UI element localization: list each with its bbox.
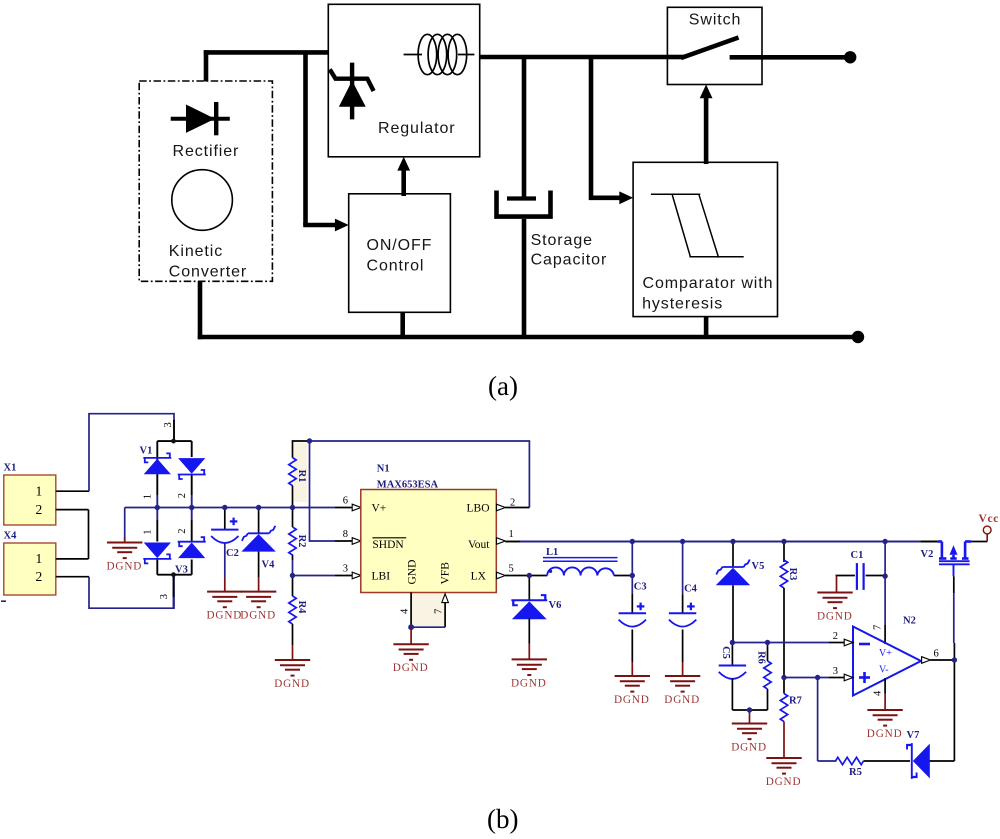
svg-text:V5: V5 xyxy=(752,561,765,572)
svg-text:4: 4 xyxy=(400,608,411,614)
svg-text:1: 1 xyxy=(143,494,154,499)
svg-text:DGND: DGND xyxy=(614,694,650,706)
svg-text:3: 3 xyxy=(343,564,348,575)
svg-text:2: 2 xyxy=(510,498,515,509)
svg-text:1: 1 xyxy=(36,484,43,499)
svg-text:DGND: DGND xyxy=(664,694,700,706)
svg-text:VFB: VFB xyxy=(440,562,452,585)
svg-text:N2: N2 xyxy=(903,616,916,627)
svg-text:6: 6 xyxy=(343,496,348,507)
svg-text:3: 3 xyxy=(833,666,838,677)
svg-text:C3: C3 xyxy=(634,582,647,593)
svg-text:R3: R3 xyxy=(787,568,798,581)
svg-text:1: 1 xyxy=(143,530,154,535)
svg-text:DGND: DGND xyxy=(766,776,802,788)
svg-text:C1: C1 xyxy=(851,550,864,561)
svg-text:R2: R2 xyxy=(296,535,307,548)
svg-text:(b): (b) xyxy=(487,804,518,834)
svg-text:3: 3 xyxy=(163,422,174,427)
svg-text:GND: GND xyxy=(407,560,419,585)
svg-text:3: 3 xyxy=(159,594,170,599)
svg-text:hysteresis: hysteresis xyxy=(642,296,723,313)
svg-text:Switch: Switch xyxy=(689,12,742,29)
svg-text:2: 2 xyxy=(36,502,43,517)
svg-text:7: 7 xyxy=(434,609,445,614)
svg-text:SHDN: SHDN xyxy=(372,539,404,551)
svg-text:LX: LX xyxy=(471,571,487,583)
svg-text:1: 1 xyxy=(509,529,514,540)
svg-text:DGND: DGND xyxy=(817,611,853,623)
svg-text:R4: R4 xyxy=(296,601,307,615)
svg-text:8: 8 xyxy=(343,529,348,540)
svg-text:X1: X1 xyxy=(4,463,17,474)
svg-text:C2: C2 xyxy=(226,548,239,559)
svg-text:C4: C4 xyxy=(684,584,698,595)
svg-text:V4: V4 xyxy=(262,560,276,571)
svg-text:V7: V7 xyxy=(907,730,920,741)
svg-text:MAX653ESA: MAX653ESA xyxy=(377,480,439,491)
svg-text:Kinetic: Kinetic xyxy=(169,243,223,260)
svg-text:DGND: DGND xyxy=(240,610,276,622)
svg-text:DGND: DGND xyxy=(731,742,767,754)
svg-text:LBI: LBI xyxy=(372,571,391,583)
svg-text:Vcc: Vcc xyxy=(979,513,1000,525)
svg-text:V2: V2 xyxy=(921,549,934,560)
svg-text:6: 6 xyxy=(934,649,939,660)
svg-text:L1: L1 xyxy=(546,547,558,558)
svg-text:R7: R7 xyxy=(789,696,802,707)
svg-text:V+: V+ xyxy=(372,503,387,515)
svg-text:2: 2 xyxy=(177,493,188,498)
svg-text:N1: N1 xyxy=(377,464,390,475)
svg-text:ON/OFF: ON/OFF xyxy=(367,237,433,254)
svg-text:C5: C5 xyxy=(720,646,731,659)
svg-text:(a): (a) xyxy=(488,371,518,401)
svg-text:V6: V6 xyxy=(549,600,562,611)
svg-text:DGND: DGND xyxy=(207,610,243,622)
svg-text:1: 1 xyxy=(36,551,43,566)
svg-text:LBO: LBO xyxy=(467,503,490,515)
svg-text:DGND: DGND xyxy=(107,561,143,573)
svg-text:Converter: Converter xyxy=(169,264,247,281)
svg-text:DGND: DGND xyxy=(274,678,310,690)
svg-text:V-: V- xyxy=(879,665,889,676)
svg-text:Storage: Storage xyxy=(531,232,593,249)
svg-text:2: 2 xyxy=(177,529,188,534)
svg-text:Rectifier: Rectifier xyxy=(173,143,240,160)
svg-text:Regulator: Regulator xyxy=(378,120,455,137)
svg-text:DGND: DGND xyxy=(867,728,903,740)
svg-text:R1: R1 xyxy=(296,470,307,483)
svg-text:R6: R6 xyxy=(756,651,767,664)
svg-text:X4: X4 xyxy=(4,531,18,542)
svg-text:Capacitor: Capacitor xyxy=(531,252,608,269)
svg-text:5: 5 xyxy=(509,564,514,575)
svg-text:R5: R5 xyxy=(849,767,862,778)
svg-text:Control: Control xyxy=(367,258,425,275)
svg-text:2: 2 xyxy=(36,569,43,584)
svg-text:7: 7 xyxy=(873,625,884,630)
svg-text:V3: V3 xyxy=(175,565,188,576)
svg-text:V+: V+ xyxy=(879,648,892,659)
svg-text:Comparator with: Comparator with xyxy=(643,275,774,292)
svg-text:V1: V1 xyxy=(140,446,153,457)
svg-text:Vout: Vout xyxy=(468,539,490,551)
svg-text:DGND: DGND xyxy=(393,662,429,674)
svg-text:DGND: DGND xyxy=(511,677,547,689)
svg-text:2: 2 xyxy=(833,631,838,642)
svg-text:4: 4 xyxy=(873,690,884,696)
